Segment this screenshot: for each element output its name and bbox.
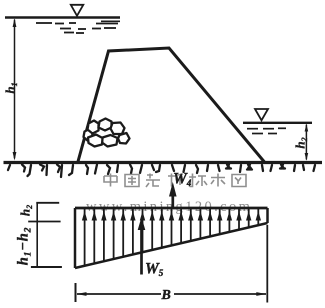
svg-text:W5: W5 xyxy=(145,261,164,279)
B dimension left extension line xyxy=(75,283,77,302)
B dimension line left part xyxy=(77,293,161,295)
label h2 lower bracket (rotated) xyxy=(18,205,35,216)
B dimension line right part xyxy=(174,293,266,295)
downstream water dashes xyxy=(247,128,286,133)
pressure diagram right edge xyxy=(266,208,269,223)
dimension h2 bottom arrowhead xyxy=(305,153,309,161)
svg-text:h2: h2 xyxy=(293,137,310,148)
W4 arrow xyxy=(171,195,174,208)
B dimension left arrowhead xyxy=(77,292,87,296)
ground hatching marks xyxy=(8,165,315,178)
upstream water surface line xyxy=(5,16,120,19)
pressure diagram left edge xyxy=(74,208,77,268)
downstream water level symbol (nabla) xyxy=(255,109,268,120)
svg-text:h1: h1 xyxy=(3,82,20,93)
dimension h2 line (downstream) xyxy=(305,125,307,159)
riprap stone 5 bottom-mid xyxy=(102,135,118,147)
dimension h1 bottom arrowhead xyxy=(13,152,17,161)
downstream water surface line xyxy=(243,122,312,124)
pressure diagram top line xyxy=(75,207,268,210)
dimension h1 line xyxy=(14,20,16,158)
riprap stone 6 bottom-left xyxy=(88,135,103,147)
B dimension right arrowhead xyxy=(256,292,266,296)
bracket top tick xyxy=(36,202,59,204)
watermark line 1: 中国选矿技术网 (simulated CJK glyphs) xyxy=(104,174,246,188)
bracket middle tick xyxy=(28,221,60,223)
hatch arrowheads xyxy=(82,211,261,221)
ground line xyxy=(4,161,323,164)
riprap stone 3 top-right xyxy=(111,123,125,135)
svg-text:h2: h2 xyxy=(18,205,35,216)
svg-text:W4: W4 xyxy=(173,171,192,189)
hatch lines with up arrowheads xyxy=(85,209,259,266)
upstream water dashes xyxy=(36,21,120,33)
W5 arrow xyxy=(140,228,143,275)
dam body outline xyxy=(78,48,264,162)
upstream water level symbol (nabla) xyxy=(71,5,84,16)
label h1-h2 (rotated) xyxy=(16,227,34,265)
dimension h1 top arrowhead xyxy=(13,19,17,28)
B dimension right extension line xyxy=(266,225,268,303)
label h1 (rotated) xyxy=(3,82,20,93)
dimension h2 top arrowhead xyxy=(305,124,309,132)
left bracket vertical line xyxy=(36,203,38,268)
bracket bottom tick xyxy=(31,266,62,268)
svg-text:h1−h2: h1−h2 xyxy=(16,227,34,265)
pressure diagram bottom sloped line xyxy=(75,223,268,268)
riprap stone 7 against slope xyxy=(84,129,93,141)
riprap stone 1 top-left xyxy=(88,121,99,134)
riprap stone 2 top-mid xyxy=(99,119,112,131)
svg-text:B: B xyxy=(161,288,171,303)
label h2 upper right (rotated) xyxy=(293,137,310,148)
riprap stone 4 right xyxy=(118,133,130,144)
